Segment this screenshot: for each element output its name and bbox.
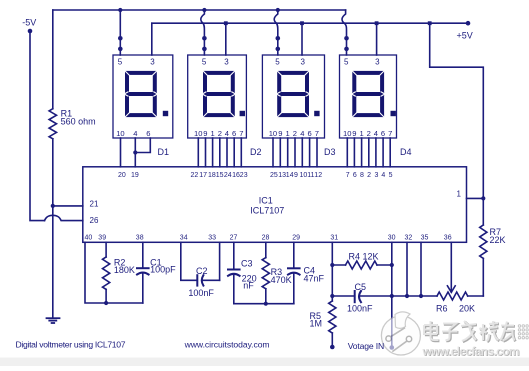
resistor R7 [480,225,487,258]
label D1 [158,147,170,157]
display D2 decimal point [240,111,245,116]
node rail dot D1 pin5 [118,8,122,12]
display D3 box [262,55,324,138]
svg-text:32: 32 [405,234,413,241]
svg-text:1: 1 [286,129,290,138]
svg-text:25: 25 [270,172,278,179]
display D2 box [188,55,247,138]
display D3 digit bevels [276,70,309,118]
wire top -5V rail [53,9,346,11]
svg-text:D3: D3 [324,147,336,157]
display D2 pin number labels [194,129,243,138]
capacitor C4 [288,268,300,274]
svg-text:nF: nF [243,280,254,290]
resistor R6 potentiometer [437,292,468,300]
svg-text:23: 23 [240,172,248,179]
watermark logo circle [381,312,420,355]
wire C3/R3/C4 bottom tie [234,303,294,305]
svg-text:9: 9 [352,129,356,138]
svg-text:-5V: -5V [22,17,36,27]
svg-text:21: 21 [90,200,99,209]
svg-text:3: 3 [301,58,306,67]
svg-text:40: 40 [85,234,93,241]
svg-text:9: 9 [278,129,282,138]
svg-text:26: 26 [90,216,99,225]
node rail dot D3 pin5 [276,8,280,12]
display D4 pin number labels [343,129,392,138]
display D3 decimal point [314,111,319,116]
svg-text:C2: C2 [196,266,208,276]
svg-text:1M: 1M [310,319,323,329]
capacitor C3 [228,270,240,276]
svg-text:15: 15 [216,172,224,179]
node R3 bottom junction [264,302,268,306]
wire pin36 wiper arrow [450,242,452,292]
svg-text:R6: R6 [436,303,448,313]
svg-text:3: 3 [375,58,380,67]
wire C5/R6 run [332,295,483,297]
op-amp IC U1 ICL7107 box [83,167,467,243]
svg-text:4: 4 [225,129,229,138]
svg-text:29: 29 [292,234,300,241]
svg-text:ICL7107: ICL7107 [250,206,284,216]
svg-text:10: 10 [269,129,277,138]
watermark text dianzifashaoyou [424,321,515,342]
wire pin3 drop [301,23,303,55]
svg-text:www.elecfans.com: www.elecfans.com [422,345,520,359]
svg-text:10: 10 [116,129,124,138]
wire pin33 stub [219,242,221,280]
label D2 [250,147,262,157]
wire pin35 stub [420,242,422,296]
svg-text:5: 5 [275,58,280,67]
svg-text:35: 35 [421,234,429,241]
svg-text:36: 36 [444,234,452,241]
capacitor C1 [137,268,149,274]
resistor R2 [103,257,110,289]
capacitor C2 [197,275,203,285]
display D4 seven-segment digit [354,73,382,115]
wire D3 pins to IC [273,138,317,167]
node D1 pin4/6 junction [133,150,137,154]
svg-text:8: 8 [360,172,364,179]
svg-text:2: 2 [367,129,371,138]
wire rail2 to R7 branch [430,23,484,225]
node junction pin21 [51,204,55,208]
svg-text:5: 5 [344,58,349,67]
node R2 bottom junction [104,301,108,305]
svg-text:4: 4 [374,129,378,138]
resistor R5 [329,301,336,333]
wire pin34 stub [181,242,197,280]
display D3 seven-segment digit [279,73,307,115]
svg-text:22: 22 [191,172,199,179]
node pin1 junction [481,196,485,200]
svg-text:33: 33 [208,234,216,241]
svg-text:27: 27 [230,234,238,241]
display D1 pin number labels [116,129,150,138]
capacitor C5 [355,291,361,302]
svg-text:D4: D4 [400,147,412,157]
resistor R3 [262,258,269,289]
display D4 box [340,55,397,138]
svg-text:C5: C5 [355,282,367,292]
wire pin30 stub to input [391,242,393,346]
display D4 decimal point [391,111,396,116]
svg-text:2: 2 [367,172,371,179]
wire -5V down and to IC pin 26 with hop [30,33,45,221]
wire D2 pins to IC [198,138,241,167]
svg-text:1: 1 [360,129,364,138]
wire R4 run [332,264,392,266]
svg-text:7: 7 [239,129,243,138]
node rail2 junction R7 branch [428,21,432,25]
wire pin40 stub [85,242,143,303]
display D1 digit bevels [124,70,157,118]
svg-text:6: 6 [381,129,385,138]
wire pin28 stub [265,242,267,257]
wire D4 pins to IC [347,138,390,167]
resistor R1 [49,109,56,139]
svg-text:Votage IN: Votage IN [348,341,385,351]
svg-text:7: 7 [346,172,350,179]
svg-text:180K: 180K [114,265,135,275]
node junctions on C5/R6 run [330,294,334,298]
wire pin3 drop [225,23,227,55]
svg-text:5: 5 [118,58,123,67]
svg-text:6: 6 [146,129,150,138]
svg-text:6: 6 [353,172,357,179]
wire pin29 stub [293,242,295,267]
display D3 pin number labels [269,129,319,138]
wire hop over vertical [45,215,83,220]
svg-text:D2: D2 [250,147,262,157]
svg-text:20K: 20K [459,303,475,313]
svg-text:560 ohm: 560 ohm [61,116,96,126]
node input terminal R5 [330,345,335,350]
node input terminal pin30 [390,345,395,350]
svg-text:R4 12K: R4 12K [349,251,379,261]
svg-text:IC1: IC1 [259,196,273,206]
svg-text:17: 17 [199,172,207,179]
svg-text:10: 10 [194,129,202,138]
display D1 decimal point [163,111,168,116]
svg-text:12: 12 [314,172,322,179]
wire D1 pin3 drop [151,23,153,55]
wire D4 pin5 branch from rail end [342,10,346,55]
svg-text:+5V: +5V [457,31,473,41]
wire D3 pin5 branch [274,10,278,55]
svg-text:6: 6 [232,129,236,138]
wire pin3 drop [376,23,378,55]
wire left vertical from rail to R1 [52,10,54,109]
svg-text:9: 9 [294,172,298,179]
node rail2 junction [300,21,304,25]
resistor R4 [346,261,378,269]
label D3 [324,147,336,157]
svg-text:2: 2 [218,129,222,138]
svg-text:38: 38 [136,234,144,241]
wire R1 bottom to ground [52,139,54,318]
display D1 box [113,55,173,138]
svg-text:1: 1 [211,129,215,138]
svg-text:4: 4 [133,129,137,138]
ground [47,318,60,323]
display D2 digit bevels [202,70,235,118]
svg-text:100nF: 100nF [188,288,214,298]
svg-text:3: 3 [375,172,379,179]
svg-text:D1: D1 [158,147,170,157]
svg-text:34: 34 [180,234,188,241]
svg-text:100pF: 100pF [150,264,176,274]
wire D1 pin4 to IC pin19 [134,138,136,167]
svg-text:Digital voltmeter using ICL710: Digital voltmeter using ICL7107 [16,340,126,350]
svg-text:24: 24 [224,172,232,179]
wire D1 pin6 elbow [135,138,150,153]
svg-text:3: 3 [150,58,155,67]
wire pin30 over watermark [390,316,395,350]
display D4 digit bevels [352,70,385,118]
svg-text:5: 5 [202,58,207,67]
svg-text:7: 7 [315,129,319,138]
node rail2 junction [224,21,228,25]
wire D2 pin5 branch [201,10,205,55]
svg-text:4: 4 [381,172,385,179]
node -5V terminal [28,29,33,34]
wire pin39 stub [105,242,107,257]
node rail dot D2 pin5 [202,8,206,12]
svg-text:9: 9 [203,129,207,138]
wire pin32 stub [406,242,408,296]
wire IC pin1 [467,197,484,199]
label D4 [400,147,412,157]
svg-text:2: 2 [293,129,297,138]
wire +5V rail [152,22,468,24]
label IC top pin numbers [118,172,393,179]
wire D1 pin10 to IC pin20 [120,138,122,167]
bottom strip [0,358,529,367]
label R1 value [61,108,96,126]
svg-text:14: 14 [286,172,294,179]
svg-text:16: 16 [232,172,240,179]
svg-text:5: 5 [389,172,393,179]
svg-text:1: 1 [457,190,462,199]
svg-text:47nF: 47nF [304,274,325,284]
svg-text:6: 6 [308,129,312,138]
svg-text:www.circuitstoday.com: www.circuitstoday.com [184,340,270,350]
svg-text:C3: C3 [241,259,253,269]
display D1 seven-segment digit [127,73,155,115]
svg-text:100nF: 100nF [347,303,373,313]
svg-text:7: 7 [388,129,392,138]
svg-text:39: 39 [98,234,106,241]
label IC bottom pin numbers [85,234,452,241]
wire D1 pin5 branch [119,10,121,55]
svg-text:19: 19 [131,172,139,179]
node rail2 junction [375,21,379,25]
wire pin27 stub [233,242,235,268]
svg-text:10: 10 [343,129,351,138]
display D2 seven-segment digit [205,73,233,115]
node +5V terminal [466,21,471,26]
wire pin31 stub [331,242,333,301]
svg-text:470K: 470K [271,275,292,285]
wire IC pin 21 to left vertical [53,205,83,207]
svg-text:22K: 22K [490,235,506,245]
svg-text:3: 3 [224,58,229,67]
svg-text:4: 4 [300,129,304,138]
svg-text:30: 30 [388,234,396,241]
svg-text:28: 28 [262,234,270,241]
watermark dots [518,325,528,339]
svg-text:31: 31 [330,234,338,241]
svg-text:20: 20 [118,172,126,179]
wire pin38 stub [142,242,144,267]
